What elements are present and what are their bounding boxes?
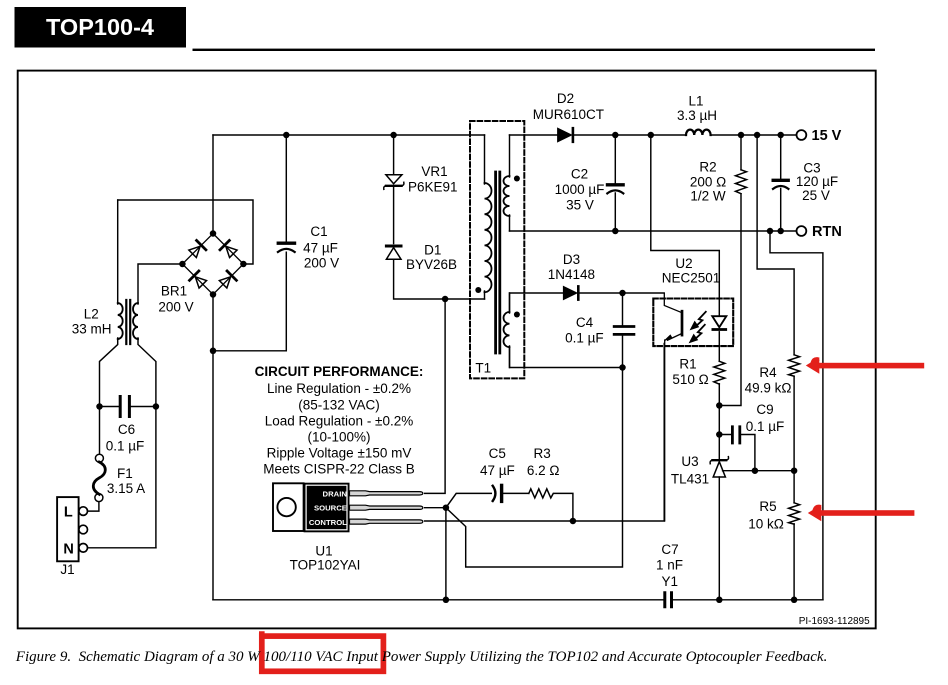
- svg-text:33 mH: 33 mH: [72, 322, 112, 337]
- resistor R2: [736, 170, 747, 194]
- svg-text:PI-1693-112895: PI-1693-112895: [799, 616, 870, 627]
- node R1 R2 junction: [716, 402, 723, 409]
- svg-text:0.1 µF: 0.1 µF: [746, 419, 785, 434]
- svg-text:1000 µF: 1000 µF: [555, 182, 605, 197]
- node VR1 top: [390, 132, 397, 139]
- svg-text:200 V: 200 V: [304, 256, 339, 271]
- wire L2 left winding top: [117, 200, 119, 304]
- opto transistor base bar: [681, 311, 684, 335]
- svg-text:P6KE91: P6KE91: [408, 180, 458, 195]
- BR1 diode bottom-right: [218, 271, 236, 289]
- wire LED feed from rail: [651, 135, 720, 316]
- node BR1 right vertex: [240, 261, 247, 268]
- svg-text:Figure 9. Schematic Diagram o: Figure 9. Schematic Diagram of a 30 W 10…: [15, 649, 828, 665]
- transformer T1 dashed box: [470, 121, 524, 378]
- wire source node to C5 branch: [446, 493, 573, 521]
- terminal RTN: [797, 226, 807, 236]
- svg-text:TOP100-4: TOP100-4: [46, 14, 154, 40]
- capacitor C1 plates: [278, 241, 294, 244]
- svg-text:R5: R5: [759, 499, 776, 514]
- wire LED cathode to R1: [718, 332, 720, 362]
- svg-text:BR1: BR1: [161, 284, 187, 299]
- wire BR1 bottom to bottom bus: [212, 295, 214, 600]
- svg-text:R2: R2: [699, 160, 716, 175]
- wire source pin to node: [425, 508, 446, 600]
- wire RTN bus: [510, 230, 797, 232]
- node drain tap: [442, 296, 449, 303]
- node BR1 minus: [210, 348, 217, 355]
- node C4 bottom: [619, 364, 626, 371]
- connector J1 body: [57, 497, 79, 561]
- U1 source pin: [350, 505, 423, 510]
- svg-text:Meets CISPR-22 Class B: Meets CISPR-22 Class B: [263, 462, 415, 477]
- wire R1 to C9 node to U3: [718, 384, 720, 459]
- svg-text:C1: C1: [310, 224, 327, 239]
- wire R2 branch: [719, 135, 741, 406]
- svg-text:L2: L2: [84, 307, 99, 322]
- svg-text:DRAIN: DRAIN: [323, 489, 348, 498]
- svg-text:(10-100%): (10-100%): [307, 430, 370, 445]
- capacitor C9 plates: [732, 427, 739, 443]
- svg-text:D2: D2: [557, 91, 574, 106]
- svg-text:120 µF: 120 µF: [796, 174, 838, 189]
- svg-text:CONTROL: CONTROL: [309, 518, 347, 527]
- svg-text:SOURCE: SOURCE: [314, 504, 347, 513]
- svg-text:510 Ω: 510 Ω: [672, 372, 708, 387]
- opto transistor emitter lead: [668, 334, 682, 341]
- wire bus to BR1 top: [212, 135, 214, 234]
- wire U3 anode to bottom bus: [718, 477, 720, 600]
- opto LED: [712, 316, 726, 327]
- svg-text:0.1 µF: 0.1 µF: [106, 439, 145, 454]
- optocoupler U2 dashed box: [653, 299, 733, 347]
- wire RTN to lower right rail: [770, 231, 823, 600]
- node C2 top: [612, 132, 619, 139]
- wire bottom bus left of C7: [213, 599, 664, 601]
- wire R4 feed from 15V: [757, 135, 794, 600]
- wire bottom bus right of C7: [672, 599, 823, 601]
- transformer secondary winding: [504, 176, 510, 216]
- wire N pin: [88, 547, 156, 549]
- wire bias winding top lead to D3: [510, 293, 665, 311]
- diode D3: [563, 286, 577, 299]
- svg-text:Y1: Y1: [662, 574, 679, 589]
- red arrow at R4: [806, 357, 820, 374]
- svg-text:200 Ω: 200 Ω: [690, 175, 726, 190]
- inductor L1: [686, 130, 711, 135]
- node LED feed: [648, 132, 655, 139]
- wire C2 branch: [614, 135, 616, 231]
- svg-text:3.15 A: 3.15 A: [107, 481, 145, 496]
- transformer core bars: [496, 172, 500, 353]
- wire BR1 right vertex loop: [118, 200, 253, 264]
- svg-text:BYV26B: BYV26B: [406, 257, 457, 272]
- wire primary top bus: [213, 134, 485, 136]
- resistor R4: [789, 355, 800, 376]
- svg-text:C5: C5: [489, 446, 506, 461]
- svg-text:200 V: 200 V: [158, 300, 193, 315]
- svg-text:C7: C7: [661, 542, 678, 557]
- svg-text:TL431: TL431: [671, 472, 709, 487]
- wire C3 branch: [780, 135, 782, 231]
- svg-text:VR1: VR1: [421, 164, 447, 179]
- wire L2 bottom leads: [100, 338, 156, 548]
- node control R3 tap: [570, 518, 577, 525]
- wire bias winding bottom lead: [510, 349, 623, 368]
- wire C4 bottom to source return: [446, 368, 623, 568]
- connector J1 pin L: [79, 507, 88, 516]
- capacitor C7 plates: [665, 593, 672, 607]
- svg-text:TOP102YAI: TOP102YAI: [290, 558, 361, 573]
- node R4 R5 junction: [791, 467, 798, 474]
- diode D2: [558, 128, 572, 142]
- wire C6 to F1: [99, 407, 101, 454]
- svg-text:R4: R4: [759, 365, 777, 380]
- BR1 diode top-right: [220, 240, 238, 258]
- node U3 anode ground: [716, 597, 723, 604]
- svg-text:R3: R3: [533, 446, 550, 461]
- light arrow 1: [695, 312, 706, 327]
- node C3 bottom: [777, 228, 784, 235]
- wire C4 branch: [622, 293, 624, 368]
- opto transistor collector lead: [664, 294, 681, 313]
- wire F1 to L pin: [88, 502, 99, 511]
- svg-text:35 V: 35 V: [566, 198, 594, 213]
- resistor R1: [714, 361, 725, 384]
- svg-text:U1: U1: [315, 544, 332, 559]
- svg-text:T1: T1: [475, 361, 491, 376]
- wire secondary bottom lead: [509, 215, 511, 231]
- node C6 left: [96, 403, 103, 410]
- resistor R3: [529, 489, 554, 498]
- node R5 bottom: [791, 597, 798, 604]
- svg-text:N: N: [63, 542, 73, 558]
- svg-text:49.9 kΩ: 49.9 kΩ: [745, 381, 792, 396]
- capacitor C4 plates: [614, 325, 634, 328]
- svg-text:1 nF: 1 nF: [656, 558, 683, 573]
- svg-text:L: L: [64, 505, 73, 521]
- svg-text:47 µF: 47 µF: [303, 241, 338, 256]
- svg-text:NEC2501: NEC2501: [662, 271, 721, 286]
- header black box: [15, 7, 187, 48]
- transformer primary winding: [485, 183, 492, 292]
- node R2 top: [738, 132, 745, 139]
- phase dot primary: [475, 287, 481, 293]
- node source ground: [443, 597, 450, 604]
- svg-text:1N4148: 1N4148: [548, 267, 595, 282]
- fuse F1: [95, 454, 103, 462]
- diode D1: [386, 245, 401, 248]
- svg-text:C6: C6: [118, 422, 135, 437]
- svg-text:25 V: 25 V: [802, 188, 830, 203]
- svg-text:0.1 µF: 0.1 µF: [565, 331, 604, 346]
- capacitor C6 plates: [120, 397, 129, 417]
- BR1 diode bottom-left: [189, 271, 207, 289]
- U1 control pin: [350, 519, 423, 524]
- node BR1 top vertex: [210, 230, 217, 237]
- phase dot bias: [514, 312, 520, 318]
- wire BR1 left vertex to L2 right winding: [138, 264, 182, 304]
- svg-text:15 V: 15 V: [812, 128, 842, 144]
- choke L2 left winding: [118, 303, 123, 339]
- node C9 left: [716, 431, 723, 438]
- light arrow 2: [694, 325, 705, 340]
- svg-text:CIRCUIT PERFORMANCE:: CIRCUIT PERFORMANCE:: [255, 364, 424, 379]
- svg-text:3.3 µH: 3.3 µH: [677, 108, 717, 123]
- svg-text:D1: D1: [424, 243, 441, 258]
- transformer bias winding: [504, 312, 510, 347]
- schematic frame: [18, 71, 876, 629]
- svg-text:Load Regulation - ±0.2%: Load Regulation - ±0.2%: [265, 414, 414, 429]
- capacitor C2 plates: [608, 183, 624, 186]
- svg-text:(85-132 VAC): (85-132 VAC): [298, 398, 380, 413]
- svg-text:D3: D3: [563, 252, 580, 267]
- wire C9 leads: [719, 435, 755, 471]
- node C3 top: [777, 132, 784, 139]
- wire secondary top lead: [509, 135, 511, 177]
- svg-text:1/2 W: 1/2 W: [690, 189, 726, 204]
- resistor R5: [789, 503, 800, 524]
- choke L2 core bars: [126, 300, 130, 344]
- svg-text:R1: R1: [679, 357, 696, 372]
- TOPSwitch U1 body: [304, 483, 350, 533]
- wire secondary output rail: [510, 134, 797, 136]
- node C4 top: [619, 290, 626, 297]
- BR1 diode top-left: [188, 240, 206, 258]
- svg-text:MUR610CT: MUR610CT: [533, 107, 604, 122]
- choke L2 right winding: [133, 303, 138, 339]
- connector J1 pin mid: [79, 525, 88, 534]
- node C6 right: [153, 403, 160, 410]
- TOPSwitch U1 package tab: [273, 483, 304, 531]
- wire C6 leads: [100, 406, 156, 408]
- U1 drain pin: [350, 491, 423, 496]
- svg-text:Ripple Voltage ±150 mV: Ripple Voltage ±150 mV: [267, 446, 412, 461]
- node RTN drop: [767, 228, 774, 235]
- node BR1 bottom vertex: [210, 291, 217, 298]
- header rule: [193, 49, 876, 51]
- svg-text:RTN: RTN: [812, 224, 842, 240]
- node R4 feed: [754, 132, 761, 139]
- wire drain vertical: [425, 299, 446, 493]
- svg-text:47 µF: 47 µF: [480, 463, 515, 478]
- node C9 ref: [752, 467, 759, 474]
- svg-text:F1: F1: [117, 466, 133, 481]
- red arrow at R5: [808, 505, 822, 522]
- svg-text:U2: U2: [675, 256, 692, 271]
- wire control pin run: [425, 344, 665, 522]
- node C2 bottom: [612, 228, 619, 235]
- svg-text:10 kΩ: 10 kΩ: [748, 517, 784, 532]
- node C1 top: [283, 132, 290, 139]
- connector J1 pin N: [79, 544, 88, 553]
- svg-text:6.2 Ω: 6.2 Ω: [527, 463, 560, 478]
- svg-text:Line Regulation - ±0.2%: Line Regulation - ±0.2%: [267, 381, 411, 396]
- capacitor C3 plates: [773, 179, 788, 182]
- wire C1 branch: [213, 135, 286, 351]
- svg-text:J1: J1: [60, 562, 74, 577]
- zener VR1: [386, 175, 402, 184]
- node source pin: [443, 504, 450, 511]
- svg-text:U3: U3: [681, 454, 698, 469]
- capacitor C5 plates: [493, 485, 502, 501]
- red highlight box on caption: [262, 636, 384, 671]
- wire U3 ref to R4 R5 junction: [723, 470, 794, 472]
- svg-text:C2: C2: [571, 167, 588, 182]
- phase dot secondary: [514, 176, 520, 182]
- wire VR1 D1 clamp chain: [394, 135, 485, 299]
- svg-text:C9: C9: [756, 402, 773, 417]
- node BR1 left vertex: [179, 261, 186, 268]
- svg-text:L1: L1: [688, 94, 703, 109]
- terminal 15V: [797, 130, 807, 140]
- bridge BR1 diamond: [182, 234, 243, 295]
- svg-text:C4: C4: [576, 315, 594, 330]
- shunt regulator U3 TL431: [713, 462, 725, 477]
